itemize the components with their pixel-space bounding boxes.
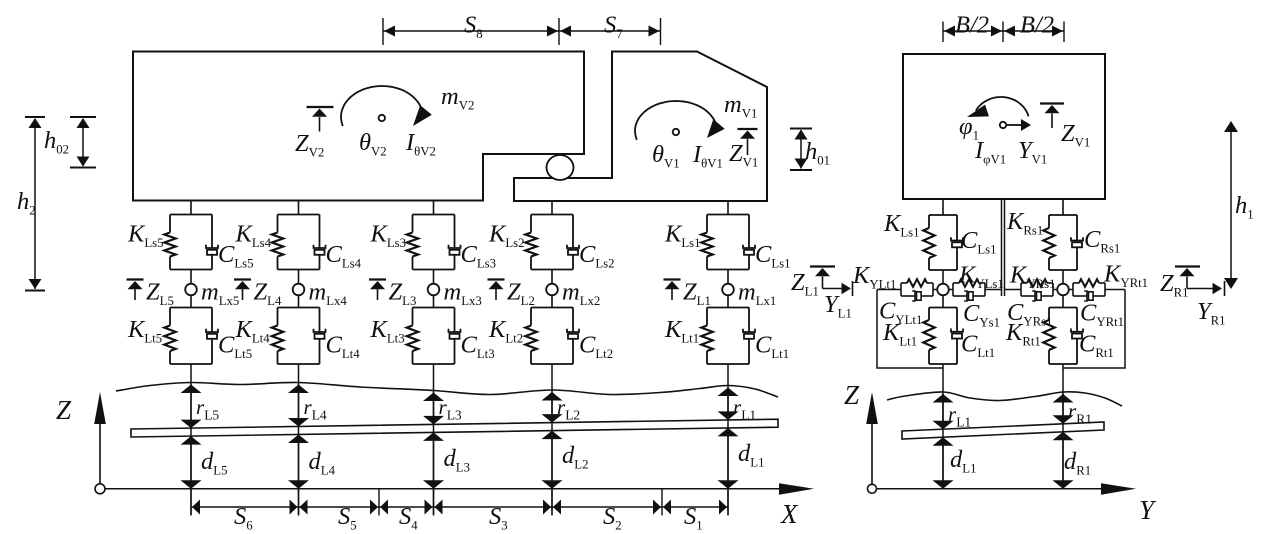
label I_phiV1 [974,137,1006,167]
label K_Lt4 [235,316,271,346]
wire box to wheel mass axle 4 [298,270,300,285]
label Z_V2 [295,130,324,160]
wire suspension to wheel [1062,270,1064,284]
tractor pivot circle theta_V1 [673,129,679,135]
label Z_L4 [254,279,282,309]
contact wire axle 3 down to baseline [433,364,435,515]
label K_YLs1 [958,262,1004,292]
label phi_1 [959,113,979,143]
label d_L1 [738,440,764,470]
label K_Lt2 [488,316,523,346]
svg-text:Z: Z [56,395,72,425]
wheel mass circle m_Lx1 [722,284,734,296]
contact wire axle 2 down to baseline [551,364,553,515]
rail beam (left figure) [131,419,778,437]
roll rotation arc [967,97,1029,117]
Z_V1 displacement arrow (tractor) [738,129,758,155]
label C_Ls3 [461,241,497,271]
label r_L4 [304,395,327,423]
wire box to wheel mass axle 3 [433,270,435,285]
label m_Lx1 [738,279,776,309]
trailer pivot circle theta_V2 [379,115,385,121]
label m_Lx2 [562,279,600,309]
secondary suspension unit axle 3 (spring K_Ls3 + damper C_Ls3) [407,215,461,270]
fifth-wheel coupling circle [547,155,574,180]
label Y_R1 [1197,298,1226,328]
wire box to wheel mass axle 5 [190,270,192,285]
label C_Ls5 [218,241,254,271]
label Z_L5 [146,279,174,309]
secondary suspension unit L (spring K_Ls1 + damper C_Ls1) [923,215,963,270]
label d_L5 [201,448,227,478]
road roughness wavy line [116,382,778,397]
label r_R1 [1068,399,1092,427]
label h_2 [17,188,36,218]
label h_1 [1235,192,1254,222]
wire wheel to tyre unit Rt1 [1062,295,1064,308]
lateral spring-damper unit Ys1 [953,279,985,301]
kingpin double line [1002,199,1005,296]
label r_L1 (right figure) [948,402,971,430]
wire wheel mass to tyre unit axle 4 [298,295,300,308]
vehicle body cross-section (right figure) [903,54,1105,199]
label K_Ls4 [235,221,272,251]
dimension B/2 B/2 [943,22,1064,43]
Z_V2 displacement arrow [307,107,334,132]
Z axis (left figure) [94,392,106,494]
tyre unit axle 3 (spring K_Lt3 + damper C_Lt3) [407,308,461,365]
label Z_L3 [389,279,417,309]
label B/2 right [1020,12,1054,39]
hanger wire R (right figure) [1062,199,1064,215]
label K_Ls1 [664,221,701,251]
contact wire Lt1 to baseline [942,364,944,489]
dimension h_1 [1224,121,1238,289]
Z axis (right figure) [866,392,878,493]
left track frame [877,290,943,369]
label Y [1139,495,1157,525]
label h_01 [805,138,830,168]
label m_Lx3 [444,279,482,309]
label C_YRs1 [1007,299,1053,329]
irregularity arrow r_L5 [181,385,202,429]
label K_YRs1 [1009,262,1056,292]
label K_Ls2 [488,221,525,251]
tyre unit (spring K_Lt1 + damper C_Lt1) [923,308,963,365]
Y axis baseline [877,483,1136,495]
label K_Lt5 [127,316,162,346]
irregularity arrow r_L4 [288,385,309,427]
contact wire axle 5 down to baseline [190,364,192,515]
irregularity arrow r_L1 (right figure) [933,394,954,429]
label Y_V1 [1018,137,1047,167]
wheel mass circle m_Lx4 [293,284,305,296]
label m_V2 [441,83,474,113]
label K_Lt3 [370,316,405,346]
tyre unit axle 5 (spring K_Lt5 + damper C_Lt5) [164,308,218,365]
label d_L3 [444,445,470,475]
label d_L1 (right figure) [950,446,976,476]
deflection arrow d_L3 [423,432,444,488]
dimension h_2 [25,117,45,291]
hanger wire L (right figure) [942,199,944,215]
wire wheel mass to tyre unit axle 2 [551,295,553,308]
wheel mass circle m_Lx3 [428,284,440,296]
lateral connection wires [877,289,1125,291]
contact wire Rt1 to baseline [1062,364,1064,489]
label C_Ls1 (right figure) [961,227,997,257]
label S3 [489,503,508,533]
svg-text:B/2: B/2 [955,12,989,39]
axle 1 hanger wire [727,201,729,215]
Y_V1 arrow [1006,119,1031,131]
label d_R1 [1064,448,1091,478]
svg-text:B/2: B/2 [1020,12,1054,39]
deflection arrow d_L4 [288,434,309,488]
deflection arrow d_L2 [542,431,563,489]
label C_Ls2 [579,241,615,271]
wheelset circle right [1057,284,1069,296]
label I_thetaV2 [405,129,436,159]
irregularity arrow r_L3 [423,393,444,425]
Z_L4 displacement arrow [234,280,251,301]
label S2 [603,503,622,533]
deflection arrow d_R1 [1053,432,1074,489]
label Z (right) [844,380,860,410]
lateral spring-damper unit YLt1 [901,279,933,301]
deflection arrow d_L1 (right figure) [933,437,954,489]
label S7 [604,12,623,42]
svg-text:X: X [780,499,799,529]
label K_YLt1 [852,262,896,292]
secondary suspension unit axle 4 (spring K_Ls4 + damper C_Ls4) [272,215,326,270]
Z_L2 displacement arrow [488,280,505,301]
right track frame [1063,290,1125,369]
label C_Ys1 [963,300,1000,330]
secondary suspension unit axle 2 (spring K_Ls2 + damper C_Ls2) [525,215,579,270]
label I_thetaV1 [692,141,723,171]
axle 5 hanger wire [190,201,192,215]
label K_Ls5 [127,221,164,251]
label C_Lt3 [461,332,495,362]
wire box to wheel mass axle 1 [727,270,729,285]
axle 4 hanger wire [298,201,300,215]
lateral spring-damper unit YRt1 [1073,279,1105,301]
label Z_L1 [683,279,711,309]
tractor rotation arc I_thetaV1 [635,101,725,140]
Z_R1 Y_R1 axis marker [1175,267,1225,297]
label Z_L1 (right figure) [791,269,819,299]
label S4 [399,503,418,533]
Z_L3 displacement arrow [369,280,386,301]
wire wheel mass to tyre unit axle 3 [433,295,435,308]
label r_L3 [439,395,462,423]
wire wheel mass to tyre unit axle 5 [190,295,192,308]
trailer rotation arc I_thetaV2 [341,86,432,126]
label theta_V1 [652,141,680,171]
Z_L5 displacement arrow [127,280,144,301]
label S5 [338,503,357,533]
wheel mass circle m_Lx5 [185,284,197,296]
label theta_V2 [359,129,387,159]
label C_Rs1 [1084,226,1120,256]
tyre unit axle 2 (spring K_Lt2 + damper C_Lt2) [525,308,579,365]
Z_V1 arrow (right figure) [1040,104,1064,129]
tyre unit axle 4 (spring K_Lt4 + damper C_Lt4) [272,308,326,365]
wire suspension to wheel [942,270,944,284]
Z_L1 displacement arrow [664,280,681,301]
label C_Ls1 [755,241,791,271]
label K_Rt1 [1005,319,1041,349]
label B/2 left [955,12,989,39]
rail beam (right figure) [902,422,1104,439]
label K_Lt1 (right figure) [882,319,917,349]
label K_Ls3 [370,221,407,251]
tyre unit (spring K_Rt1 + damper C_Rt1) [1043,308,1083,365]
contact wire axle 1 down to baseline [727,364,729,515]
road roughness wavy line (right figure) [887,392,1122,406]
label d_L2 [562,442,588,472]
dimension h_01 [790,129,812,171]
irregularity arrow r_L2 [542,392,563,423]
irregularity arrow r_R1 [1053,394,1074,424]
label K_Lt1 [664,316,699,346]
label C_Lt5 [218,332,252,362]
label C_Rt1 [1079,331,1114,361]
label C_Ls4 [326,241,362,271]
label r_L1 [733,395,756,423]
secondary suspension unit R (spring K_Rs1 + damper C_Rs1) [1043,215,1083,270]
label Y_L1 [824,291,852,321]
secondary suspension unit axle 5 (spring K_Ls5 + damper C_Ls5) [164,215,218,270]
deflection arrow d_L1 [718,428,739,489]
label S1 [684,503,703,533]
wire box to wheel mass axle 2 [551,270,553,285]
label C_Lt1 (right figure) [961,331,995,361]
label C_YLt1 [879,298,922,328]
svg-text:Z: Z [844,380,860,410]
label m_Lx4 [309,279,348,309]
label r_L5 [196,395,219,423]
Z_L1 Y_L1 axis marker [810,267,853,297]
secondary suspension unit axle 1 (spring K_Ls1 + damper C_Ls1) [701,215,755,270]
label K_Rs1 [1006,208,1043,238]
label S6 [234,503,253,533]
label d_L4 [309,448,336,478]
label h_02 [44,127,69,157]
label C_YRt1 [1080,300,1124,330]
label Z_L2 [507,279,535,309]
label Z_V1 (right figure) [1061,120,1090,150]
chained dimension S6-S1 [191,489,728,516]
label K_Ls1 (right figure) [883,210,920,240]
axle 2 hanger wire [551,201,553,215]
deflection arrow d_L5 [181,436,202,489]
wheelset circle left [937,284,949,296]
wire wheel mass to tyre unit axle 1 [727,295,729,308]
label X [780,499,799,529]
label C_Lt2 [579,332,613,362]
trailer body (m_V2) [133,52,584,201]
label S8 [464,12,483,42]
label Z_R1 [1160,270,1189,300]
X axis baseline [105,483,814,495]
label m_V1 [724,91,757,121]
dimension h_02 [70,117,96,168]
lateral spring-damper unit YRs1 [1021,279,1053,301]
axle 3 hanger wire [433,201,435,215]
label C_Lt1 [755,332,789,362]
label Z_V1 (tractor) [729,140,758,170]
tractor body (m_V1) [514,52,767,202]
wheel mass circle m_Lx2 [546,284,558,296]
label C_Lt4 [326,332,361,362]
label Z (left) [56,395,72,425]
label r_L2 [557,395,580,423]
roll pivot circle phi_1 [1000,122,1006,128]
irregularity arrow r_L1 [718,388,739,420]
contact wire axle 4 down to baseline [298,364,300,515]
wire wheel to tyre unit Lt1 [942,295,944,308]
dimension S8 S7 [383,18,661,45]
label K_YRt1 [1103,261,1148,291]
label m_Lx5 [201,279,239,309]
tyre unit axle 1 (spring K_Lt1 + damper C_Lt1) [701,308,755,365]
